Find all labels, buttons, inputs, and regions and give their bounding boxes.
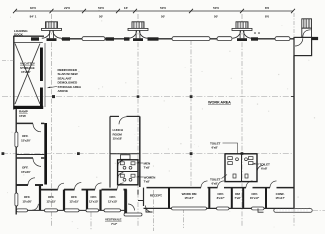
bottom-left exterior wall xyxy=(16,209,126,211)
ramp X brace stroke 1 xyxy=(15,44,40,105)
counter fixture below lunch room xyxy=(121,155,131,160)
centerline below bottom wall x=183.5 xyxy=(183,208,185,228)
centerline grid E (vertical x=191) xyxy=(190,40,192,186)
node dot grid E crossing y153.5 xyxy=(190,152,193,155)
center toilet divider xyxy=(118,171,138,173)
centerline grid D (vertical at east wall x=294) xyxy=(293,13,295,37)
right toilet fixtures xyxy=(228,157,253,178)
svg-text:WORK AREA: WORK AREA xyxy=(208,101,231,105)
bottom-right room labels xyxy=(150,192,285,200)
bottom-right sill c3 xyxy=(252,207,265,210)
svg-text:7'x8': 7'x8' xyxy=(144,180,150,184)
svg-text:84'0: 84'0 xyxy=(30,6,36,10)
svg-text:15'W: 15'W xyxy=(19,114,26,118)
northwest wing top wall xyxy=(13,35,44,37)
interior long wall west segment xyxy=(40,189,127,191)
svg-text:15'x20': 15'x20' xyxy=(22,199,32,203)
bottom-left room labels xyxy=(22,195,117,203)
svg-text:15'x17': 15'x17' xyxy=(250,196,260,200)
window capsule n1 xyxy=(82,37,105,41)
centerline east extension y209.5 xyxy=(313,209,325,211)
east exterior wall xyxy=(293,56,295,209)
pilaster column P1 xyxy=(42,22,62,41)
lunch room door arc xyxy=(119,117,127,125)
svg-text:12'x15': 12'x15' xyxy=(69,199,79,203)
vestibule sill xyxy=(124,213,142,216)
centerline below bottom wall x=91 xyxy=(90,212,92,230)
svg-text:VESTIBULE: VESTIBULE xyxy=(105,218,121,222)
svg-text:7'x8': 7'x8' xyxy=(144,166,150,170)
room1 rear door arc xyxy=(32,204,38,210)
wall stub s4 xyxy=(124,37,130,40)
svg-text:RECEPT.: RECEPT. xyxy=(150,194,163,198)
ramp room inner top line xyxy=(14,42,43,44)
node dot grid E crossing y96.5 xyxy=(190,95,193,98)
svg-text:15'x17': 15'x17' xyxy=(184,196,194,200)
centerline horizontal main y=153.5 xyxy=(2,153,292,155)
dimension labels above line xyxy=(30,6,269,10)
window capsule n3 xyxy=(217,37,232,41)
annotation note block xyxy=(58,68,82,93)
vestibule east wall xyxy=(143,188,145,206)
toilet fixtures center top xyxy=(118,160,135,181)
svg-text:84' 1: 84' 1 xyxy=(30,15,37,19)
svg-text:12'x15': 12'x15' xyxy=(89,199,99,203)
svg-text:RAMP: RAMP xyxy=(19,110,28,114)
stair room xyxy=(294,37,312,55)
office A south wall xyxy=(16,154,44,156)
node dot grid B crossing xyxy=(137,95,140,98)
wall stub s5 xyxy=(148,37,159,40)
ramp room thick south wall xyxy=(14,106,43,109)
bottom-left row dividers xyxy=(40,185,125,215)
vestibule inner jog xyxy=(138,190,144,201)
stair tower hatched flight xyxy=(302,19,312,38)
stair room door arc xyxy=(295,38,303,46)
svg-text:15'x50': 15'x50' xyxy=(21,70,31,74)
centerline grid A (vertical col line x=51.5) xyxy=(51,14,53,227)
west wall window capsule w1 xyxy=(15,132,18,147)
svg-text:7'x8': 7'x8' xyxy=(234,196,240,200)
west wall tick mark y60.5 xyxy=(2,60,14,62)
right toilet block outline xyxy=(225,154,257,182)
ramp room thick east wall upper xyxy=(40,48,43,82)
bottom-right sill c2 xyxy=(217,207,230,210)
vestibule door arc 2 xyxy=(146,206,153,213)
svg-text:50': 50' xyxy=(99,15,103,19)
office B south wall / corner room top wall xyxy=(16,184,43,186)
svg-text:50'0: 50'0 xyxy=(98,6,104,10)
svg-text:DOCK: DOCK xyxy=(14,33,24,37)
node dot west end y153.5 xyxy=(2,152,5,155)
exterior step below wall xyxy=(258,208,264,212)
dimension ticks xyxy=(13,9,295,13)
bottom sill capsule b5 xyxy=(104,209,121,212)
bottom-right exterior wall xyxy=(144,207,295,209)
svg-text:7'x7': 7'x7' xyxy=(111,222,117,226)
annotation leader arrow xyxy=(48,87,58,88)
corner room door arc xyxy=(28,178,35,185)
svg-text:6'x8': 6'x8' xyxy=(212,182,218,186)
svg-text:16': 16' xyxy=(124,6,128,10)
west exterior wall upper (ramp wing) xyxy=(13,36,15,110)
corridor wall to toilets xyxy=(109,154,111,187)
bottom sill capsule b4 xyxy=(86,209,99,212)
ramp X brace stroke 2 xyxy=(15,44,40,105)
svg-text:50': 50' xyxy=(161,15,165,19)
centerline grid D below wall xyxy=(293,208,295,226)
pilaster column P2 xyxy=(128,22,148,41)
centerline below vestibule x=153.5 xyxy=(153,190,155,231)
lunch room walls xyxy=(110,116,140,187)
door arcs on long wall east xyxy=(201,181,277,188)
recept exterior door step xyxy=(146,208,153,212)
office B top wall xyxy=(16,157,33,159)
node dot at ramp wall / centerline crossing xyxy=(52,95,55,98)
jog from office wall to long wall xyxy=(39,185,41,190)
svg-text:ABOVE: ABOVE xyxy=(58,89,69,93)
vestibule west wall xyxy=(126,190,128,215)
west exterior wall lower xyxy=(15,108,17,215)
node dot open area y153.5 xyxy=(77,152,80,155)
wall stub s6 xyxy=(251,37,258,40)
sidewalk capsule southeast xyxy=(274,209,312,213)
svg-text:15'x20': 15'x20' xyxy=(21,138,31,142)
node dot grid C crossing y153.5 xyxy=(241,152,244,155)
svg-text:15'x20': 15'x20' xyxy=(21,170,31,174)
door arcs on long wall west xyxy=(58,183,124,190)
north wall main line xyxy=(42,38,294,40)
bottom sill capsule b2 xyxy=(45,209,58,212)
vestibule door arc 1 xyxy=(128,204,135,211)
right toilet door arc xyxy=(257,165,263,171)
svg-text:15'x17': 15'x17' xyxy=(275,196,285,200)
wall stub s2 xyxy=(62,37,70,40)
svg-text:8'0: 8'0 xyxy=(265,15,269,19)
svg-text:8'6: 8'6 xyxy=(265,6,269,10)
svg-text:12'x15': 12'x15' xyxy=(108,199,118,203)
top dimension line xyxy=(15,10,293,12)
window capsule n2 xyxy=(172,37,210,41)
wall stub s3 xyxy=(106,37,115,40)
svg-text:50'0: 50'0 xyxy=(160,6,166,10)
centerline grid C (vertical col line x=242) xyxy=(241,14,243,226)
bottom-right sill c1 xyxy=(172,207,207,210)
pilaster column P3 xyxy=(232,22,252,41)
stub right of stair xyxy=(312,37,319,40)
svg-text:15'x18': 15'x18' xyxy=(113,137,123,141)
interior long wall east segment xyxy=(147,187,295,189)
svg-text:22'6: 22'6 xyxy=(64,6,70,10)
centerline grid B (vertical col line x=138) xyxy=(137,14,139,226)
right toilet divider xyxy=(241,154,243,182)
dimension labels below line xyxy=(30,15,270,19)
ramp room east face line xyxy=(44,43,46,107)
bottom sill capsule b1 xyxy=(17,209,28,212)
office A top wall xyxy=(16,122,33,124)
svg-text:6'x8': 6'x8' xyxy=(261,167,267,171)
svg-text:6'x8': 6'x8' xyxy=(212,146,218,150)
west wall window capsule w2 xyxy=(15,193,18,206)
center toilet block outline xyxy=(118,160,138,185)
ramp room thick east wall lower xyxy=(40,88,43,108)
tick at east wall crossing xyxy=(291,96,294,98)
bottom sill capsule b3 xyxy=(65,209,80,212)
survey dots near stub s6 xyxy=(254,32,256,34)
svg-text:50': 50' xyxy=(214,15,218,19)
svg-text:8'x17': 8'x17' xyxy=(217,196,225,200)
svg-text:50'0: 50'0 xyxy=(213,6,219,10)
office B door arc xyxy=(33,158,41,166)
left office thick east wall xyxy=(44,123,47,185)
bottom-right row dividers xyxy=(169,188,266,209)
stair tower lower run xyxy=(302,28,312,37)
centerline horizontal left y=96.5 xyxy=(2,96,294,98)
office A door arc xyxy=(33,124,41,132)
wall stub s1 xyxy=(31,37,39,40)
svg-text:12'x15': 12'x15' xyxy=(46,199,56,203)
window capsule n4 xyxy=(275,37,290,41)
